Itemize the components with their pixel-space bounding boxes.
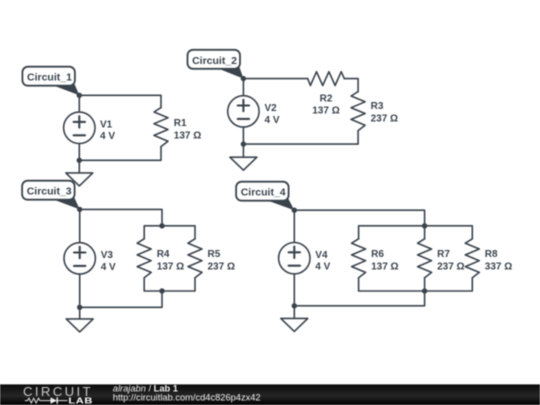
- wire R7 top lead C4: [424, 226, 426, 239]
- op V2 source circle: [228, 96, 259, 127]
- wire V4 top lead: [293, 210, 295, 242]
- V4 minus sign: [289, 265, 300, 267]
- ground G4: [281, 318, 308, 331]
- ground G1: [66, 173, 93, 186]
- resistor R4: [137, 239, 151, 278]
- svg-text:Circuit_3: Circuit_3: [27, 186, 72, 198]
- svg-text:R1: R1: [174, 118, 187, 129]
- svg-text:137 Ω: 137 Ω: [371, 262, 398, 273]
- ground G2: [230, 157, 257, 170]
- wire V3 top lead: [79, 209, 81, 242]
- svg-text:Circuit_1: Circuit_1: [27, 72, 72, 84]
- resistor R8: [465, 239, 479, 278]
- op V1 source circle: [64, 112, 95, 143]
- resistor R1: [154, 108, 168, 147]
- V3 plus sign: [74, 247, 85, 258]
- V1 plus sign: [74, 116, 85, 127]
- svg-text:237 Ω: 237 Ω: [371, 113, 398, 124]
- wire top rail C1: [79, 95, 161, 107]
- node dot C4 rail bottom: [422, 288, 427, 293]
- svg-text:337 Ω: 337 Ω: [485, 262, 512, 273]
- wire R1 bottom lead: [79, 147, 161, 161]
- resistor R2: [308, 72, 345, 86]
- svg-text:V1: V1: [100, 119, 113, 130]
- node flag Circuit_4 pointer: [266, 199, 294, 210]
- svg-text:Circuit_2: Circuit_2: [192, 55, 237, 67]
- svg-text:Circuit_4: Circuit_4: [241, 187, 286, 199]
- logo resistor zigzag: [25, 398, 51, 403]
- wire R7 bottom lead C4: [424, 278, 426, 291]
- node dot C3 top: [77, 207, 82, 212]
- svg-text:R2: R2: [320, 93, 333, 104]
- svg-text:4 V: 4 V: [265, 115, 280, 126]
- wire branch arms bottom C3: [144, 278, 195, 291]
- node dot C4 rail top: [422, 223, 427, 228]
- labels text: [100, 93, 512, 272]
- V3 minus sign: [74, 265, 85, 267]
- wire to ground C2: [242, 144, 244, 157]
- node name flags: [22, 50, 294, 210]
- node dot C3 rail top: [159, 223, 164, 228]
- wire to ground C4: [293, 306, 295, 319]
- wire V1 top lead: [78, 95, 80, 112]
- wire R3 bottom lead: [243, 131, 358, 145]
- wire top rail C3: [80, 209, 162, 225]
- svg-text:137 Ω: 137 Ω: [174, 130, 201, 141]
- wire branch rail top C4: [359, 226, 473, 239]
- resistor R6: [352, 239, 366, 278]
- wire V2 top lead: [242, 79, 244, 96]
- svg-text:R8: R8: [485, 249, 498, 260]
- node dot C2 bottom: [241, 141, 246, 146]
- resistor R5: [188, 239, 202, 278]
- node flag Circuit_2 box: [188, 50, 241, 69]
- svg-text:LAB: LAB: [68, 397, 93, 405]
- node flag Circuit_1 box: [22, 67, 75, 86]
- V4 plus sign: [289, 247, 300, 258]
- wire top rail C2: [243, 78, 307, 80]
- wire branch arms top C3: [144, 226, 195, 239]
- svg-text:V2: V2: [265, 103, 278, 114]
- wire to ground C3: [79, 307, 81, 319]
- node dot C4 bottom: [292, 303, 297, 308]
- wire R2 to R3 corner: [344, 79, 358, 92]
- ground G3: [66, 319, 93, 332]
- node dot C1 bottom: [77, 158, 82, 163]
- svg-text:137 Ω: 137 Ω: [312, 106, 339, 117]
- node dot C3 rail bottom: [159, 288, 164, 293]
- wire V3 bottom lead: [79, 274, 81, 307]
- svg-text:R5: R5: [208, 249, 221, 260]
- op V4 source circle: [279, 243, 310, 274]
- svg-text:137 Ω: 137 Ω: [157, 262, 184, 273]
- svg-text:V3: V3: [101, 250, 114, 261]
- svg-text:V4: V4: [315, 250, 328, 261]
- node flag Circuit_3 box: [22, 181, 75, 200]
- op V3 source circle: [64, 243, 95, 274]
- V2 minus sign: [238, 118, 249, 120]
- svg-text:http://circuitlab.com/cd4c826p: http://circuitlab.com/cd4c826p4zx42: [113, 393, 261, 403]
- resistor R7: [418, 239, 432, 278]
- node dot C3 bottom: [77, 305, 82, 310]
- resistor R3: [351, 92, 365, 131]
- svg-text:4 V: 4 V: [100, 131, 115, 142]
- node dot C2 top: [241, 76, 246, 81]
- wire V1 bottom lead: [78, 144, 80, 161]
- node flag Circuit_1 pointer: [52, 84, 79, 95]
- wire V2 bottom lead: [242, 127, 244, 144]
- wire to ground C1: [78, 160, 80, 173]
- svg-text:R4: R4: [157, 249, 170, 260]
- svg-text:R3: R3: [371, 101, 384, 112]
- node dot C4 top: [292, 208, 297, 213]
- logo diode: [51, 397, 58, 403]
- V2 plus sign: [238, 100, 249, 111]
- svg-text:R6: R6: [371, 249, 384, 260]
- wire bottom feed C4: [294, 291, 424, 306]
- svg-text:237 Ω: 237 Ω: [208, 262, 235, 273]
- wire branch rail bottom C4: [359, 278, 473, 291]
- node flag Circuit_4 box: [236, 182, 289, 201]
- node dot C1 top: [77, 93, 82, 98]
- node flag Circuit_2 pointer: [218, 67, 244, 78]
- svg-text:R7: R7: [437, 249, 450, 260]
- svg-text:237 Ω: 237 Ω: [437, 262, 464, 273]
- wire top rail C4: [294, 210, 424, 226]
- svg-text:4 V: 4 V: [315, 262, 330, 273]
- wire V4 bottom lead: [293, 274, 295, 306]
- wire bottom feed C3: [80, 291, 162, 307]
- V1 minus sign: [74, 134, 85, 136]
- svg-text:4 V: 4 V: [101, 262, 116, 273]
- node flag Circuit_3 pointer: [52, 198, 80, 209]
